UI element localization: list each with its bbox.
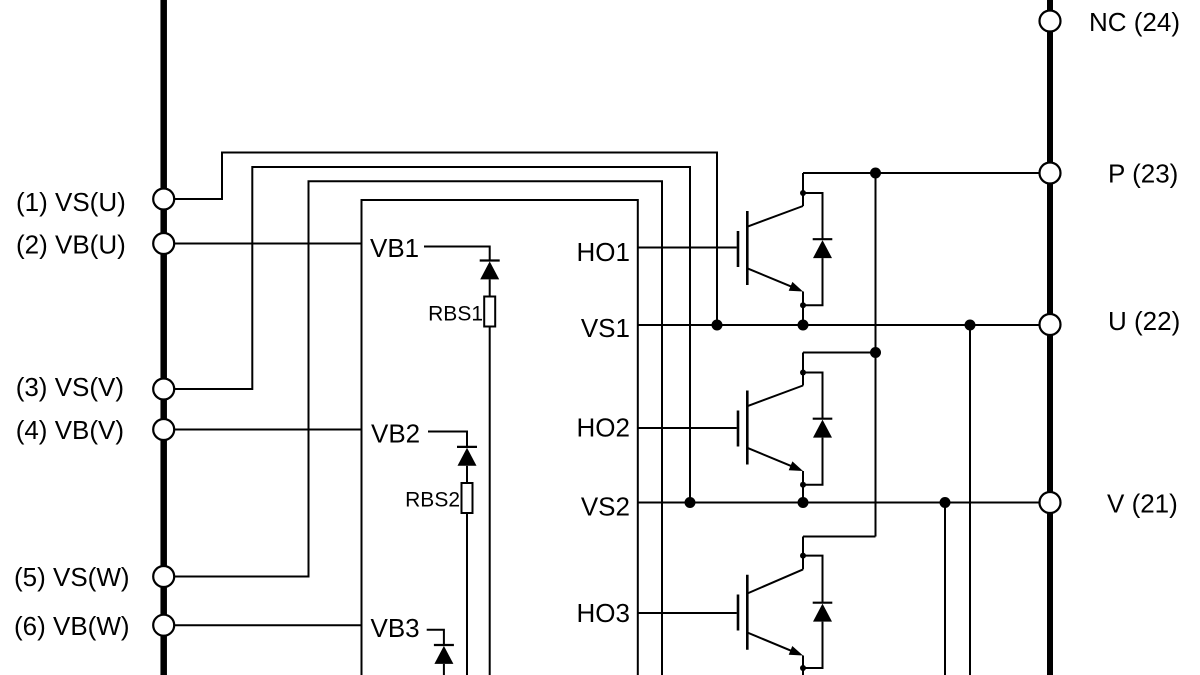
diode D2 cathode bar — [813, 418, 833, 420]
IGBT Q2 collector diagonal — [747, 386, 803, 407]
diode D2 top connection — [803, 373, 823, 419]
IGBT Q3 emitter arrow — [789, 646, 803, 656]
diode DBS2 cathode bar — [457, 446, 477, 448]
node dot VS2 low-side branch — [940, 497, 951, 508]
diode DBS3 — [434, 646, 453, 664]
node dot Q2 emitter branch — [800, 482, 806, 488]
wire DBS3 anode down — [443, 664, 445, 675]
IGBT Q1 gate wire HO1 — [638, 247, 737, 249]
wire RBS1 down — [489, 327, 491, 675]
diode D2 anode connection — [803, 438, 823, 485]
P rail from Q1 collector to P pin — [803, 172, 1040, 174]
right bus (pins 21-24 rail) — [1047, 0, 1053, 675]
svg-text:(1) VS(U): (1) VS(U) — [16, 187, 126, 217]
svg-text:VB2: VB2 — [371, 419, 420, 449]
wire VS2 down (low side V) — [944, 503, 946, 675]
svg-text:(5) VS(W): (5) VS(W) — [14, 562, 130, 592]
wire VS(U) pin to VS1 node — [174, 153, 717, 326]
node dot VS1 low-side branch — [965, 320, 976, 331]
diode D3 cathode bar — [813, 602, 833, 604]
terminal VS(U) pin 1 — [153, 189, 174, 210]
terminal VB(U) pin 2 — [153, 233, 174, 254]
IGBT Q3 emitter diagonal — [747, 633, 794, 652]
node dot VS1-VS(U) — [712, 320, 723, 331]
wire VS(V) pin to VS2 node — [174, 167, 690, 503]
VS1 line to U pin — [638, 324, 1040, 326]
IGBT Q3 gate wire HO3 — [638, 612, 737, 614]
wire VB(U) pin to VB1 — [174, 243, 361, 245]
svg-text:RBS2: RBS2 — [405, 489, 460, 512]
IGBT Q2 body bar — [746, 391, 749, 465]
node dot VS1-Q1 emitter — [798, 320, 809, 331]
diode DBS1 cathode bar — [480, 259, 500, 261]
IGBT Q1 emitter diagonal — [747, 268, 794, 287]
VS2 line to V pin — [638, 502, 1040, 504]
diode DBS2 — [458, 448, 477, 466]
IGBT Q3 collector riser — [802, 537, 804, 570]
svg-text:VB1: VB1 — [370, 233, 419, 263]
terminal V pin 21 — [1040, 492, 1061, 513]
IGBT Q2 emitter diagonal — [747, 448, 794, 467]
svg-text:(4) VB(V): (4) VB(V) — [16, 415, 124, 445]
terminal U pin 22 — [1040, 314, 1061, 335]
svg-text:NC (24): NC (24) — [1089, 7, 1180, 37]
IGBT Q2 emitter arrow — [789, 461, 803, 471]
svg-text:P (23): P (23) — [1108, 159, 1178, 189]
IGBT Q3 collector top wire — [803, 536, 876, 538]
terminal VS(V) pin 3 — [153, 379, 174, 400]
wire VB(W) pin to VB3 — [174, 624, 361, 626]
diode D1 anode connection — [803, 258, 823, 305]
IGBT Q2 emitter wire — [802, 471, 804, 503]
wire VB2 to bootstrap diode DBS2 — [428, 432, 467, 447]
svg-text:HO2: HO2 — [577, 413, 630, 443]
wire VB3 to bootstrap diode DBS3 — [427, 630, 444, 644]
svg-text:V (21): V (21) — [1107, 488, 1178, 518]
IGBT Q2 collector top wire — [803, 352, 876, 354]
IGBT Q3 emitter wire — [802, 656, 804, 675]
IGBT Q2 gate wire HO2 — [638, 427, 737, 429]
wire VB1 to bootstrap diode DBS1 — [424, 247, 490, 260]
svg-text:U (22): U (22) — [1108, 306, 1180, 336]
diode D1 — [813, 240, 832, 258]
IGBT Q2 collector riser — [802, 353, 804, 386]
svg-text:(2) VB(U): (2) VB(U) — [16, 229, 126, 259]
IGBT Q1 body bar — [746, 211, 749, 285]
node dot Q2 collector to P rail — [870, 347, 881, 358]
IGBT Q3 gate bar — [737, 595, 740, 631]
node dot Q1 emitter — [800, 302, 806, 308]
left bus (pins 1-6 rail) — [160, 0, 167, 675]
svg-text:(6) VB(W): (6) VB(W) — [14, 611, 130, 641]
resistor RBS2 — [462, 483, 473, 513]
wire DBS1 anode to RBS1 — [489, 279, 491, 296]
terminal VB(V) pin 4 — [153, 419, 174, 440]
wire DBS2 anode to RBS2 — [466, 466, 468, 483]
diode D3 anode connection — [803, 622, 823, 668]
svg-text:(3) VS(V): (3) VS(V) — [16, 372, 124, 402]
diode D3 top connection — [803, 556, 823, 603]
terminal NC pin 24 — [1040, 11, 1061, 32]
driver IC box U1 — [362, 200, 638, 675]
wire RBS2 down — [466, 513, 468, 675]
wire VS1 down (low side U) — [969, 325, 971, 675]
IGBT Q1 collector riser — [802, 173, 804, 206]
svg-text:VS2: VS2 — [581, 491, 630, 521]
terminal VS(W) pin 5 — [153, 566, 174, 587]
node dot Q3 collector branch — [800, 553, 806, 559]
diode D3 — [813, 604, 832, 622]
svg-text:VS1: VS1 — [581, 313, 630, 343]
IGBT Q1 emitter arrow — [789, 282, 803, 292]
node dot P rail — [870, 168, 881, 179]
wire VS(W) pin to VS3 node — [174, 181, 662, 675]
resistor RBS1 — [484, 297, 495, 327]
terminal P pin 23 — [1040, 163, 1061, 184]
svg-text:HO1: HO1 — [577, 237, 630, 267]
wire VB(V) pin to VB2 — [174, 429, 361, 431]
IGBT Q3 body bar — [746, 575, 749, 650]
IGBT Q2 gate bar — [737, 411, 740, 447]
diode D2 — [813, 420, 832, 438]
svg-text:HO3: HO3 — [577, 598, 630, 628]
IGBT Q1 emitter wire — [802, 292, 804, 326]
diode DBS3 cathode bar — [434, 644, 454, 646]
node dot Q2 collector branch — [800, 370, 806, 376]
P rail vertical to Q2/Q3 collectors — [875, 173, 877, 537]
node dot Q1 collector — [800, 190, 806, 196]
svg-text:VB3: VB3 — [371, 613, 420, 643]
svg-text:RBS1: RBS1 — [428, 303, 483, 326]
IGBT Q1 gate bar — [737, 231, 740, 267]
node dot VS2-Q2 emitter — [798, 497, 809, 508]
terminal VB(W) pin 6 — [153, 615, 174, 636]
node dot VS2-VS(V) — [685, 497, 696, 508]
diode D1 cathode bar — [813, 238, 833, 240]
IGBT Q1 collector diagonal — [747, 206, 803, 227]
IGBT Q3 collector diagonal — [747, 569, 803, 593]
node dot Q3 emitter branch — [800, 665, 806, 671]
diode D1 top connection — [803, 193, 823, 239]
diode DBS1 — [480, 261, 499, 279]
